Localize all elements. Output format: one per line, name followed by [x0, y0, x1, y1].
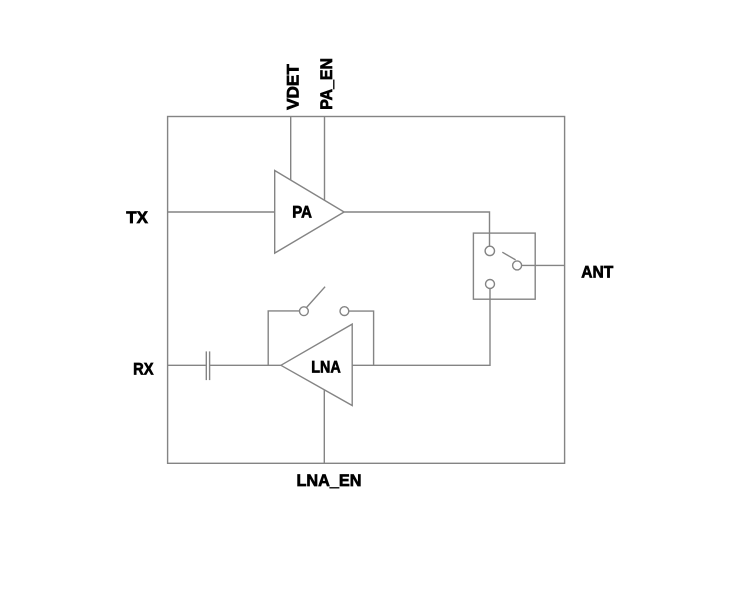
svg-text:VDET: VDET [283, 64, 302, 110]
svg-text:LNA_EN: LNA_EN [297, 471, 362, 490]
svg-text:RX: RX [133, 360, 154, 379]
svg-text:LNA: LNA [311, 358, 341, 377]
svg-text:PA_EN: PA_EN [317, 58, 336, 110]
svg-text:ANT: ANT [581, 262, 614, 281]
svg-text:PA: PA [292, 203, 312, 222]
svg-text:TX: TX [126, 208, 148, 227]
